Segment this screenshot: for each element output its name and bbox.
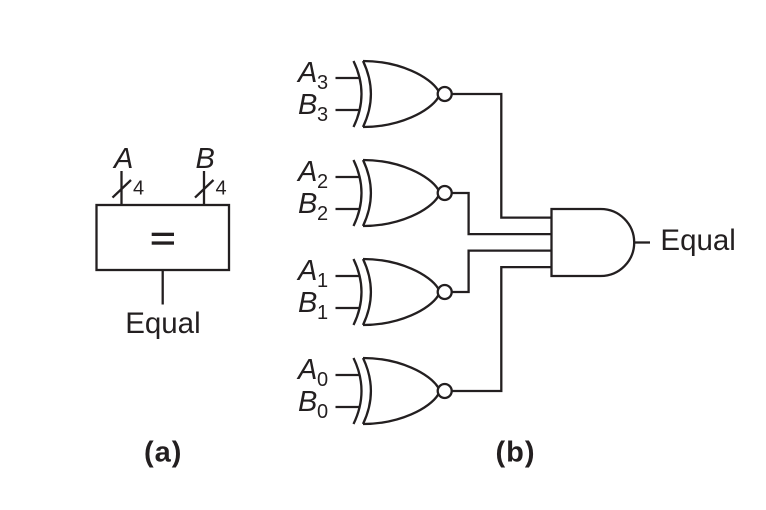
wire A bus input (a) — [120, 171, 122, 206]
svg-text:Equal: Equal — [660, 224, 735, 257]
svg-text:B: B — [196, 143, 215, 175]
xnor U2 extra input arc — [354, 160, 362, 226]
bus slash on A — [113, 180, 132, 198]
svg-text:A: A — [296, 354, 317, 386]
svg-text:B: B — [298, 287, 317, 319]
svg-text:3: 3 — [317, 72, 328, 94]
svg-text:B: B — [298, 386, 317, 418]
xnor U1 body — [363, 61, 438, 127]
xnor U4 extra input arc — [354, 358, 362, 424]
svg-text:B: B — [298, 89, 317, 121]
wire B0 input — [336, 406, 361, 408]
wire A2 input — [336, 176, 361, 178]
wire A3 input — [336, 77, 361, 79]
xnor U1 extra input arc — [354, 61, 362, 127]
comparator box (a) — [97, 205, 230, 270]
svg-text:Equal: Equal — [125, 307, 200, 340]
XNOR gate U2 (A2,B2) — [336, 160, 452, 226]
wire Equal output (a) — [162, 271, 164, 305]
svg-text:B: B — [298, 188, 317, 220]
xnor U1 output bubble — [438, 87, 452, 101]
svg-text:(b): (b) — [495, 436, 535, 468]
wire U3 output to AND input 3 — [452, 251, 551, 292]
wire U2 output to AND input 2 — [452, 193, 551, 234]
xnor U3 output bubble — [438, 285, 452, 299]
svg-text:0: 0 — [317, 401, 328, 423]
XNOR gate U4 (A0,B0) — [336, 358, 452, 424]
svg-text:3: 3 — [317, 104, 328, 126]
XNOR gate U1 (A3,B3) — [336, 61, 452, 127]
svg-text:A: A — [296, 57, 317, 89]
wire B1 input — [336, 307, 361, 309]
xnor U3 body — [363, 259, 438, 325]
wire A0 input — [336, 374, 361, 376]
svg-text:4: 4 — [216, 178, 227, 200]
xnor U2 output bubble — [438, 186, 452, 200]
xnor U4 body — [363, 358, 438, 424]
wire Equal output (b) — [634, 241, 650, 243]
xnor U4 output bubble — [438, 384, 452, 398]
svg-text:1: 1 — [317, 302, 328, 324]
svg-text:(a): (a) — [144, 436, 182, 468]
wire U4 output to AND input 4 — [452, 267, 551, 391]
svg-text:2: 2 — [317, 171, 328, 193]
svg-text:2: 2 — [317, 203, 328, 225]
AND gate U5 — [552, 209, 635, 276]
svg-text:1: 1 — [317, 270, 328, 292]
xnor U2 body — [363, 160, 438, 226]
wire B2 input — [336, 208, 361, 210]
wire U1 output to AND input 1 — [452, 94, 551, 218]
svg-text:A: A — [112, 143, 133, 175]
bus slash on B — [195, 180, 214, 198]
XNOR gate U3 (A1,B1) — [336, 259, 452, 325]
svg-text:A: A — [296, 156, 317, 188]
label = inside box — [152, 233, 174, 245]
wire B bus input (a) — [203, 171, 205, 206]
wire B3 input — [336, 109, 361, 111]
xnor U3 extra input arc — [354, 259, 362, 325]
wire A1 input — [336, 275, 361, 277]
svg-text:A: A — [296, 255, 317, 287]
svg-text:0: 0 — [317, 369, 328, 391]
svg-text:4: 4 — [133, 178, 144, 200]
